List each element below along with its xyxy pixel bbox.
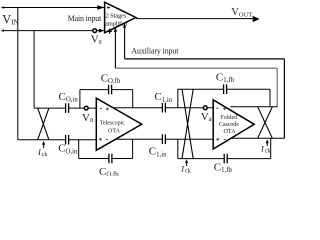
svg-text:ck: ck [185,168,192,175]
svg-text:ck: ck [265,148,272,155]
node V_a folded cascode input [203,106,207,110]
wire V_IN bottom input [2,30,93,32]
capacitor C_1,in top [162,103,165,113]
capacitor C_1,fb top loop [178,89,270,108]
pin marks plus minus (folded cascode bottom inputs) [216,138,226,141]
pin mark minus (2-stage main input) [107,7,110,9]
chopper X middle [182,89,193,158]
capacitor C_O,fb bottom loop [79,139,133,158]
current arrow I_ck middle [186,162,188,167]
wire folded cascode top output [230,106,277,108]
wire telescopic bottom output [116,138,213,140]
node V_n telescopic input [84,106,88,110]
wire node to plus input [97,30,100,32]
pin mark plus (2-stage main input) [107,29,112,34]
arrow into minus input [97,5,104,9]
wire auxiliary feedback black (upper aux line) [125,59,285,138]
wire bottom differential input line / bottom rail [18,139,97,141]
wire V_IN top input [2,7,104,9]
chopper X right [258,107,273,138]
arrow left tick bottom [1,29,4,32]
arrow into plus input [99,29,105,33]
op-amp telescopic OTA [96,98,142,150]
pin marks minus plus (folded cascode top inputs) [216,107,226,110]
arrow left tick top [1,6,4,9]
capacitor C_1,in bottom [162,134,165,144]
wire output to V_OUT [136,18,253,20]
pin marks plus minus (telescopic bottom inputs) [99,138,108,141]
svg-text:Folded: Folded [220,115,237,121]
capacitor C_O,in top [66,103,69,113]
capacitor C_1,fb bottom loop [178,138,271,158]
chopper X left [38,108,49,140]
svg-text:Main input: Main input [68,14,102,23]
svg-text:OTA: OTA [108,129,121,135]
op-amp 2-stage amplifier [105,2,136,33]
svg-text:ck: ck [42,151,49,158]
wire top differential input line [34,107,96,109]
node V_a input circle [93,29,97,33]
svg-text:Cascode: Cascode [219,122,239,128]
svg-text:2 Stages: 2 Stages [106,12,127,19]
svg-text:OTA: OTA [224,129,237,135]
wire auxiliary feedback gray (lower aux line) [115,68,277,107]
wire vertical from bottom input down to top chopper wire [33,31,35,109]
arrow V_OUT [253,16,260,22]
wire vertical from top input down to bottom rail [17,8,19,140]
svg-text:Telescopic: Telescopic [100,120,125,126]
wire telescopic top output [113,107,213,109]
current arrow I_ck right [266,142,268,146]
wire folded cascode bottom output [231,137,284,139]
pin marks minus plus (telescopic top inputs) [100,108,109,111]
auxiliary input arrow right (black path) [124,27,126,59]
auxiliary input arrow left (gray path) [114,31,116,69]
capacitor C_O,fb top loop [80,90,133,109]
current arrow I_ck left [43,144,45,148]
svg-text:Auxiliary input: Auxiliary input [131,47,179,56]
op-amp folded cascode OTA [213,100,254,149]
capacitor C_O,in bottom [66,135,69,145]
